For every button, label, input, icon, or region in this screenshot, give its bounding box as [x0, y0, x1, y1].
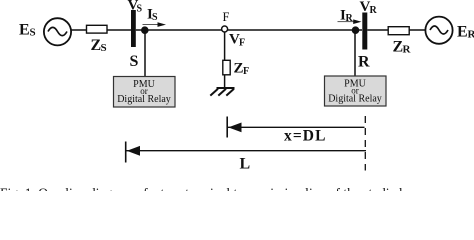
svg-text:E: E [19, 22, 30, 39]
impedance Z_R [388, 27, 409, 35]
AC source E_S (U1) [44, 18, 71, 45]
wire Z_S to bus S [107, 29, 131, 31]
svg-text:S: S [130, 53, 139, 70]
label I_R [340, 8, 354, 25]
wire Z_F to ground [224, 75, 226, 88]
dimension L [126, 142, 366, 163]
svg-text:L: L [240, 156, 251, 173]
current I_S arrow [143, 22, 167, 27]
label Z_R [393, 39, 412, 56]
svg-text:E: E [457, 24, 468, 41]
svg-text:R: R [358, 54, 370, 71]
wire source to Z_S [71, 29, 86, 31]
svg-text:S: S [137, 4, 143, 15]
svg-text:R: R [468, 29, 474, 41]
label E_R [457, 24, 474, 41]
arrowhead L [127, 146, 140, 156]
fault node F [222, 26, 228, 32]
svg-text:F: F [239, 38, 245, 49]
label Z_F [234, 61, 250, 78]
svg-text:F: F [243, 66, 249, 77]
label E_S [19, 22, 36, 39]
svg-text:R: R [403, 44, 412, 56]
node S junction [141, 26, 149, 34]
svg-text:S: S [30, 27, 36, 39]
wire bus S to PMU [144, 30, 146, 77]
label V_R [360, 0, 378, 16]
node R junction [352, 26, 360, 34]
dimension x=DL [227, 117, 364, 138]
ground [210, 88, 234, 96]
svg-text:x=DL: x=DL [284, 128, 327, 145]
svg-text:S: S [152, 12, 158, 23]
current I_R arrow [338, 19, 362, 24]
impedance Z_S [87, 25, 108, 33]
wire bus R to Z_R [367, 29, 388, 31]
wire bus R to PMU [354, 30, 356, 77]
label V_F [229, 32, 245, 49]
svg-text:Fig. 1. One-line diagram of a: Fig. 1. One-line diagram of a two-termin… [0, 186, 423, 192]
svg-text:Z: Z [234, 61, 244, 77]
main transmission line wire [136, 29, 362, 31]
svg-text:R: R [370, 5, 378, 16]
svg-text:Digital Relay: Digital Relay [328, 93, 382, 104]
label Z_S [91, 37, 107, 54]
label I_S [147, 7, 158, 24]
arrowhead x=DL [228, 123, 241, 133]
dashed projection line at bus R [364, 116, 366, 171]
bus R bar [362, 13, 367, 50]
PMU / Digital Relay box (left) [114, 77, 176, 108]
svg-text:F: F [223, 10, 230, 24]
svg-text:Digital Relay: Digital Relay [117, 94, 171, 105]
wire Z_R to source [409, 29, 425, 31]
svg-text:S: S [101, 42, 107, 54]
svg-text:R: R [346, 13, 354, 24]
fault impedance Z_F [223, 60, 230, 75]
wire F to Z_F [224, 32, 226, 60]
bus S bar [131, 10, 136, 47]
label V_S [128, 0, 143, 15]
PMU / Digital Relay box (right) [325, 76, 387, 106]
AC source E_R (U2) [425, 17, 452, 44]
